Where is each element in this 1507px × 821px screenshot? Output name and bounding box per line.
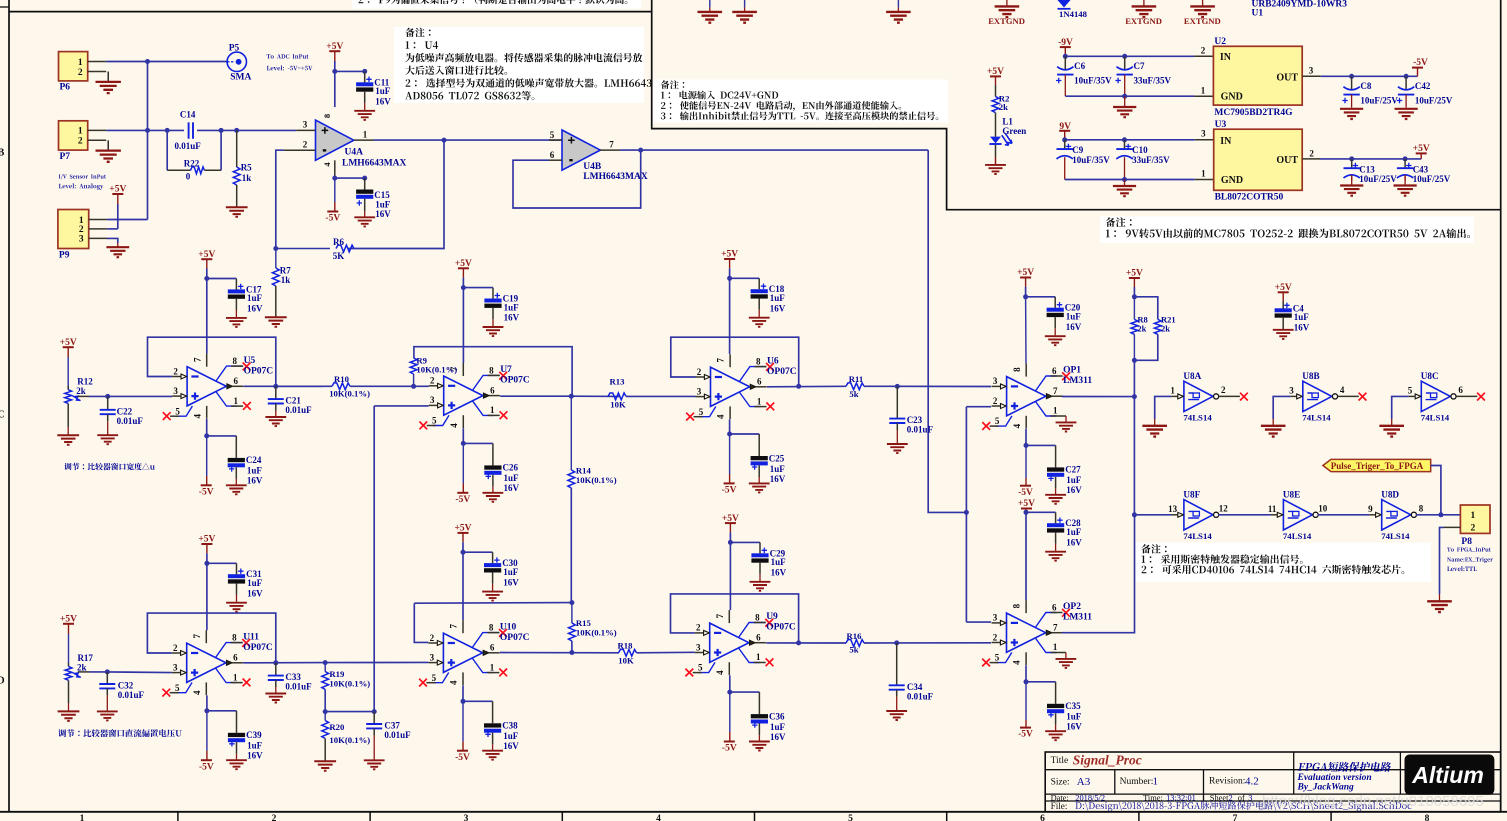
svg-text:7: 7	[449, 623, 459, 628]
power -9V	[1060, 46, 1071, 48]
capacitor C30	[492, 552, 494, 563]
svg-text:C21: C21	[285, 396, 301, 406]
svg-text:2: 2	[430, 376, 435, 386]
node R6 R7 j	[273, 246, 278, 251]
svg-text:1uF: 1uF	[247, 293, 263, 303]
resistor R5	[236, 130, 238, 167]
wire R11 to OP1	[864, 385, 991, 387]
svg-text:1: 1	[1053, 406, 1058, 416]
svg-text:6: 6	[757, 377, 762, 387]
svg-text:C9: C9	[1072, 145, 1083, 155]
svg-text:IN: IN	[1220, 52, 1232, 63]
svg-text:U8B: U8B	[1302, 371, 1319, 381]
svg-text:1uF: 1uF	[1066, 475, 1082, 485]
resistor R7	[275, 249, 277, 269]
svg-text:10uF/35V: 10uF/35V	[1072, 155, 1110, 165]
wire OP2 rail bottom	[1025, 665, 1027, 682]
connector P7	[59, 121, 88, 150]
svg-text:OUT: OUT	[1276, 72, 1298, 83]
svg-text:1: 1	[78, 127, 83, 137]
svg-text:1: 1	[757, 396, 762, 406]
wire +5V to P9 pin2	[117, 204, 119, 229]
svg-text:16V: 16V	[1066, 537, 1082, 547]
node U5 -5V j	[204, 433, 209, 438]
capacitor C37	[373, 712, 375, 724]
svg-text:1: 1	[1153, 775, 1159, 787]
svg-text:+5V: +5V	[109, 185, 126, 195]
node U11 -5V j	[204, 708, 209, 713]
svg-text:5: 5	[175, 406, 180, 416]
U4B minus	[569, 159, 572, 161]
ground EXTGND 3	[1202, 0, 1204, 6]
capacitor C29	[759, 542, 761, 553]
wire U9 rail bottom	[729, 675, 731, 692]
svg-text:1: 1	[80, 814, 85, 821]
wire to C15	[335, 177, 365, 179]
ruler tick	[1330, 812, 1332, 821]
resistor R22	[167, 169, 190, 171]
svg-text:Green: Green	[1002, 126, 1026, 136]
svg-text:1uF: 1uF	[375, 199, 391, 209]
svg-text:C26: C26	[503, 463, 519, 473]
svg-text:74LS14: 74LS14	[1183, 531, 1212, 541]
wire pullup bus	[1133, 334, 1135, 360]
svg-text:0.01uF: 0.01uF	[285, 405, 312, 415]
resistor R18	[619, 649, 637, 656]
svg-text:74LS14: 74LS14	[1283, 531, 1312, 541]
svg-text:0.01uF: 0.01uF	[907, 691, 934, 701]
wire P8 pin2 gnd	[1440, 527, 1444, 594]
svg-text:C43: C43	[1413, 164, 1429, 174]
svg-text:File:: File:	[1051, 801, 1068, 811]
power +5V U4A	[329, 50, 340, 52]
svg-text:1uF: 1uF	[504, 302, 520, 312]
svg-text:1uF: 1uF	[504, 473, 520, 483]
svg-text:2: 2	[430, 633, 435, 643]
wire R6 feedback	[276, 248, 330, 250]
svg-text:10uF/25V: 10uF/25V	[1413, 174, 1451, 184]
svg-text:16V: 16V	[504, 483, 520, 493]
node C14 right j2	[234, 128, 239, 133]
svg-text:16V: 16V	[770, 732, 786, 742]
svg-text:U8D: U8D	[1381, 489, 1399, 499]
svg-text:5k: 5k	[849, 389, 858, 399]
svg-text:C35: C35	[1065, 701, 1081, 711]
svg-text:LMH6643MAX: LMH6643MAX	[583, 172, 648, 182]
capacitor C39	[236, 711, 238, 733]
U6 feedback	[671, 337, 799, 386]
node U4A p8 j	[332, 69, 337, 74]
svg-text:16V: 16V	[1294, 323, 1310, 333]
svg-text:R22: R22	[184, 158, 200, 168]
svg-text:IN: IN	[1220, 136, 1232, 147]
wire R2 top	[995, 85, 997, 97]
ground C43	[1404, 175, 1406, 186]
svg-text:74LS14: 74LS14	[1183, 413, 1212, 423]
node P6-P7 junction	[145, 59, 150, 64]
resistor R11	[846, 383, 864, 390]
svg-text:R6: R6	[333, 237, 344, 247]
wire R22 loop left	[166, 130, 168, 170]
wire U7 +5V to cap	[463, 287, 493, 289]
wire OP1 +5V to cap	[1026, 296, 1056, 298]
svg-text:7: 7	[715, 613, 725, 618]
svg-text:8: 8	[1012, 603, 1022, 608]
node R20 j	[323, 709, 328, 714]
wire U6 +5V to cap	[730, 277, 760, 279]
svg-text:1N4148: 1N4148	[1059, 9, 1088, 19]
svg-text:1: 1	[1201, 169, 1206, 179]
svg-text:6: 6	[756, 633, 761, 643]
svg-text:1: 1	[756, 652, 761, 662]
node OP1 +5V j	[1023, 294, 1028, 299]
wire U6 -5V to cap	[730, 433, 760, 435]
node U5 out j	[273, 384, 278, 389]
svg-text:U4B: U4B	[583, 162, 602, 172]
svg-text:3: 3	[1309, 66, 1314, 76]
note power text	[661, 111, 938, 120]
power -5V U5	[206, 436, 208, 476]
wire U4A pin2 net	[276, 150, 284, 248]
svg-text:2: 2	[1229, 794, 1233, 803]
ground P8	[1427, 601, 1452, 612]
wire R22 loop right	[220, 130, 222, 170]
svg-text:0.01uF: 0.01uF	[118, 690, 145, 700]
wire U4B out down	[928, 150, 966, 512]
svg-text:1k: 1k	[281, 275, 291, 285]
node U9 -5V j	[727, 690, 732, 695]
node U6 -5V j	[727, 432, 732, 437]
capacitor C24	[235, 436, 237, 458]
svg-text:GND: GND	[1221, 175, 1243, 186]
svg-text:1uF: 1uF	[1066, 712, 1082, 722]
resistor R16	[846, 640, 864, 647]
node C37 j	[372, 709, 377, 714]
svg-text:3: 3	[173, 386, 178, 396]
op-amp U4A	[316, 120, 354, 160]
wire U7 pin3 drop	[373, 406, 375, 712]
svg-text:LM311: LM311	[1063, 613, 1092, 623]
text name ex triger	[1447, 557, 1493, 563]
U7 feedback top	[414, 347, 572, 396]
svg-text:GND: GND	[1221, 92, 1243, 103]
note regulator text	[1106, 217, 1132, 227]
comparator OP1	[1007, 377, 1046, 416]
svg-text:6: 6	[1040, 814, 1045, 821]
power -5V U11	[206, 711, 208, 751]
svg-text:U8A: U8A	[1183, 371, 1201, 381]
power +5V U9	[725, 522, 736, 524]
inverter U8E	[1283, 500, 1312, 530]
power -5V U10	[462, 701, 464, 741]
svg-text:C37: C37	[384, 721, 400, 731]
svg-text:7: 7	[609, 139, 614, 149]
capacitor C27	[1055, 445, 1057, 467]
note U4 text	[405, 53, 642, 62]
power -5V U6	[729, 434, 731, 474]
capacitor C32	[106, 672, 108, 684]
svg-text:2: 2	[272, 814, 277, 821]
svg-text:33uF/35V: 33uF/35V	[1132, 155, 1170, 165]
U4A pin3 stub	[296, 129, 315, 131]
node OP1 p4 j	[1024, 443, 1029, 448]
svg-text:EXTGND: EXTGND	[1184, 16, 1221, 26]
wire U10 -5V to cap	[463, 700, 493, 702]
wire U6 rail top	[729, 278, 731, 354]
svg-text:OUT: OUT	[1276, 155, 1298, 166]
svg-text:BL8072COTR50: BL8072COTR50	[1215, 192, 1284, 202]
svg-text:4: 4	[1340, 385, 1345, 395]
svg-text:16V: 16V	[375, 97, 391, 107]
wire R14 bottom	[570, 488, 572, 603]
svg-text:+5V: +5V	[455, 259, 472, 269]
svg-text:8: 8	[233, 356, 238, 366]
wire U4A pin4 down	[334, 160, 336, 178]
svg-text:4: 4	[716, 414, 726, 419]
wire R8 R21 top	[1134, 297, 1157, 320]
note schmitt text	[1142, 565, 1405, 574]
svg-text:4: 4	[656, 814, 661, 821]
svg-text:-5V: -5V	[455, 753, 470, 763]
svg-text:C14: C14	[180, 110, 196, 120]
note power text	[661, 101, 901, 111]
wire U8F to U8E	[1218, 514, 1271, 516]
ruler tick	[1138, 812, 1140, 821]
svg-text:+5V: +5V	[198, 250, 215, 260]
svg-text:1uF: 1uF	[770, 293, 786, 303]
svg-text:C33: C33	[285, 672, 301, 682]
ground EXTGND 1	[1006, 0, 1008, 6]
capacitor C18	[758, 278, 760, 289]
svg-text:EXTGND: EXTGND	[988, 16, 1025, 26]
svg-text:C38: C38	[502, 721, 518, 731]
svg-text:16V: 16V	[504, 313, 520, 323]
svg-text:10K: 10K	[618, 656, 634, 666]
fpga cell line1	[1298, 762, 1392, 772]
svg-text:6: 6	[233, 653, 238, 663]
wire U9 out	[766, 642, 846, 644]
svg-text:8: 8	[1419, 504, 1424, 514]
svg-text:0.01uF: 0.01uF	[117, 416, 144, 426]
svg-text:0.01uF: 0.01uF	[285, 682, 312, 692]
altium logo	[1405, 755, 1495, 795]
resistor R6	[336, 245, 354, 252]
wire comparator input bus	[965, 407, 967, 622]
U9 feedback	[671, 594, 799, 643]
op-amp U4B	[562, 130, 600, 170]
wire P7 row	[106, 129, 184, 131]
file path	[1075, 801, 1411, 811]
wire U6 rail bottom	[729, 419, 731, 434]
svg-text:4.2: 4.2	[1245, 776, 1259, 788]
power -5V U4A	[334, 202, 336, 212]
node OP2 +5V j	[1024, 510, 1029, 515]
U2 pin1 stub	[1194, 95, 1213, 97]
node U9 +5V j	[728, 540, 733, 545]
note schmitt text	[1142, 554, 1303, 563]
svg-text:R18: R18	[618, 640, 634, 650]
wire U11 rail bottom	[206, 695, 208, 710]
svg-text:1uF: 1uF	[247, 741, 263, 751]
svg-text:3: 3	[993, 613, 998, 623]
svg-text:2k: 2k	[999, 102, 1008, 112]
svg-text:R15: R15	[576, 618, 592, 628]
svg-text:C13: C13	[1359, 164, 1375, 174]
node comparator in j	[964, 510, 969, 515]
power +5V R8	[1129, 277, 1140, 279]
wire R17 top	[68, 634, 70, 663]
wire R15 bottom	[571, 641, 573, 653]
svg-text:R5: R5	[241, 163, 252, 173]
svg-text:P5: P5	[229, 44, 240, 54]
note tuning width	[64, 463, 155, 470]
regulator U3	[1214, 129, 1303, 190]
power +5V OP2	[1021, 508, 1032, 510]
wire U11 out	[243, 662, 323, 664]
capacitor C21	[275, 386, 277, 399]
wire -5V rail	[1321, 75, 1418, 77]
svg-text:4: 4	[449, 680, 459, 685]
capacitor C19	[492, 288, 494, 299]
svg-text:U8C: U8C	[1421, 371, 1439, 381]
svg-text:5: 5	[848, 814, 853, 821]
svg-text:10: 10	[1318, 504, 1328, 514]
svg-text:2k: 2k	[76, 386, 86, 396]
wire U9 -5V to cap	[730, 691, 760, 693]
svg-text:Number:: Number:	[1120, 777, 1154, 787]
U3 pin2 stub	[1302, 158, 1320, 160]
power +5V out	[1420, 153, 1422, 159]
svg-text:P9: P9	[59, 250, 70, 260]
svg-text:+5V: +5V	[1275, 283, 1292, 293]
ground C42	[1395, 109, 1418, 119]
U10 feedback left	[414, 603, 428, 642]
svg-text:2: 2	[1201, 45, 1206, 55]
note box power bg	[653, 80, 948, 123]
svg-text:LMH6643MAX: LMH6643MAX	[342, 158, 407, 168]
svg-text:6: 6	[490, 385, 495, 395]
note box regulator bg	[1100, 217, 1474, 244]
power -5V OP2	[1025, 682, 1027, 720]
node U2 gnd j	[1122, 94, 1127, 99]
svg-text:5: 5	[995, 653, 1000, 663]
svg-text:U8F: U8F	[1183, 489, 1200, 499]
svg-text:LM311: LM311	[1063, 376, 1092, 386]
capacitor C4	[1282, 301, 1284, 309]
svg-text:OP07C: OP07C	[243, 643, 273, 653]
svg-text:3: 3	[303, 119, 308, 129]
wire U5 +5V to cap	[207, 278, 237, 280]
capacitor C10	[1124, 140, 1126, 149]
svg-text:+5V: +5V	[60, 338, 77, 348]
svg-text:16V: 16V	[1066, 722, 1082, 732]
regulator U2	[1213, 46, 1302, 105]
node U8F in j	[1132, 512, 1137, 517]
svg-text:2: 2	[696, 623, 701, 633]
wire +5V to U4A pin8	[334, 61, 336, 107]
P8 pin2 stub	[1444, 526, 1461, 528]
svg-text:1: 1	[1170, 386, 1175, 396]
svg-text:10K(0.1%): 10K(0.1%)	[576, 628, 617, 638]
svg-text:1: 1	[1471, 511, 1476, 521]
svg-text:C27: C27	[1065, 465, 1081, 475]
svg-text:7: 7	[192, 357, 202, 362]
ruler tick	[754, 812, 756, 821]
svg-text:1uF: 1uF	[1066, 527, 1082, 537]
svg-text:U9: U9	[766, 612, 778, 622]
svg-text:0.01uF: 0.01uF	[384, 730, 411, 740]
region divider vertical x651	[652, 0, 1501, 210]
node P7 row j2	[165, 128, 170, 133]
svg-text:3: 3	[464, 814, 469, 821]
svg-text:10uF/25V: 10uF/25V	[1360, 95, 1398, 105]
wire U10 rail bottom	[462, 685, 464, 701]
wire U3 gnd rail	[1065, 179, 1195, 181]
ground C13	[1351, 175, 1353, 186]
node U10 +5V j	[461, 550, 466, 555]
capacitor C36	[758, 692, 760, 714]
svg-text:U3: U3	[1215, 120, 1227, 130]
ground U8A	[1142, 426, 1167, 437]
wire bus to U8F	[1134, 514, 1171, 516]
svg-text:1uF: 1uF	[1294, 312, 1310, 322]
svg-text:16V: 16V	[770, 303, 786, 313]
svg-text:+5V: +5V	[987, 67, 1004, 77]
power -5V U9	[729, 692, 731, 732]
svg-text:URB2409YMD-10WR3: URB2409YMD-10WR3	[1252, 0, 1348, 10]
U4B out stub	[600, 149, 620, 151]
svg-text:-5V: -5V	[722, 486, 737, 496]
svg-text:16V: 16V	[247, 476, 263, 486]
svg-text:-5V: -5V	[455, 495, 470, 505]
wire OP2 rail top	[1025, 512, 1027, 600]
note U4 text	[406, 41, 439, 49]
svg-text:Evaluation version: Evaluation version	[1297, 773, 1372, 783]
capacitor C22	[107, 396, 109, 409]
svg-text:10K(0.1%): 10K(0.1%)	[329, 679, 370, 689]
svg-text:C10: C10	[1132, 145, 1148, 155]
wire 9V rail	[1065, 139, 1195, 141]
node U11 +5V j	[204, 561, 209, 566]
capacitor C23	[896, 386, 898, 418]
node R8 bottom j	[1132, 358, 1137, 363]
svg-text:74LS14: 74LS14	[1421, 413, 1450, 423]
comparator OP2	[1007, 613, 1046, 652]
svg-text:7: 7	[1053, 386, 1058, 396]
svg-text:1uF: 1uF	[247, 578, 263, 588]
node R8 top j	[1132, 294, 1137, 299]
resistor R14	[570, 396, 572, 470]
svg-text:9: 9	[1368, 504, 1373, 514]
svg-text:3: 3	[430, 652, 435, 662]
capacitor C28	[1055, 512, 1057, 523]
wire U9 rail top	[729, 542, 731, 610]
node C8 top	[1349, 74, 1354, 79]
wire C14 right	[197, 129, 296, 131]
wire U5 out	[244, 385, 324, 387]
node U7 -5V j	[461, 441, 466, 446]
svg-text:OP2: OP2	[1063, 602, 1081, 612]
capacitor C17	[235, 279, 237, 290]
net label Pulse_Triger_To_FPGA	[1323, 459, 1431, 471]
svg-text:1: 1	[1053, 642, 1058, 652]
node OP2 p4 j	[1024, 679, 1029, 684]
wire U7 out	[500, 395, 571, 397]
note U4 text	[405, 91, 534, 100]
svg-text:7: 7	[192, 633, 202, 638]
note regulator text	[1106, 228, 1470, 238]
capacitor C43	[1404, 159, 1406, 168]
